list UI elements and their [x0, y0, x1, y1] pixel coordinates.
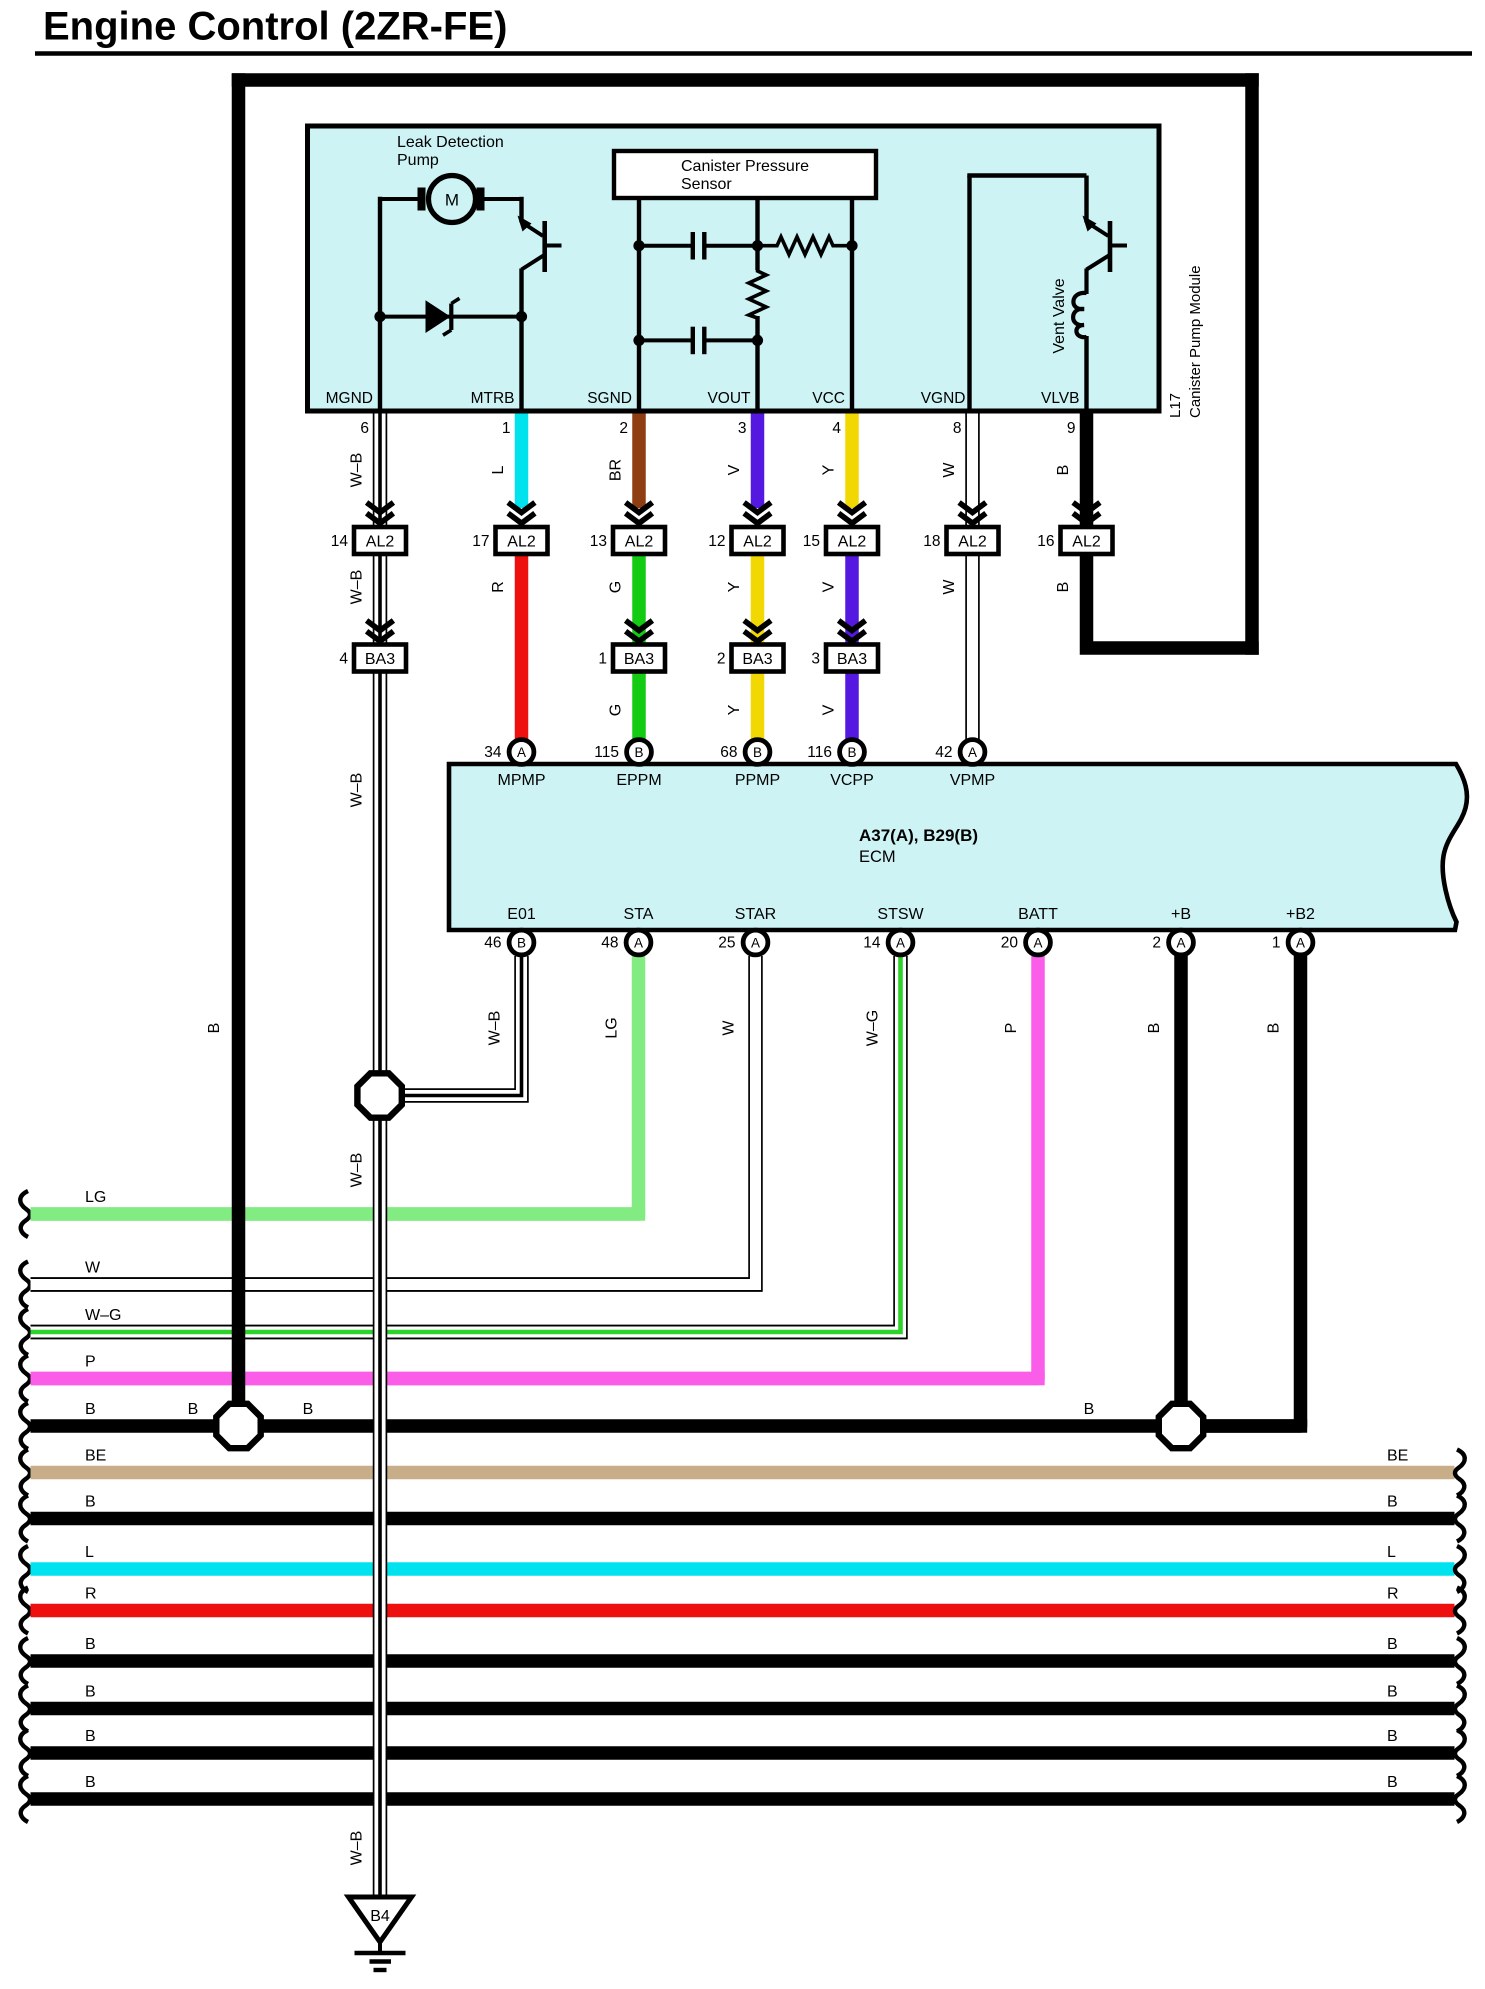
svg-text:B: B [188, 1401, 199, 1418]
svg-text:14: 14 [331, 533, 349, 550]
label ECM identification [859, 826, 978, 866]
wire motor to transistor Q1 [485, 197, 522, 223]
svg-text:B: B [303, 1401, 314, 1418]
wire BE horizontal row [20, 1448, 1465, 1496]
svg-text:W–B: W–B [487, 1011, 504, 1046]
svg-text:LG: LG [85, 1189, 106, 1206]
svg-text:AL2: AL2 [366, 533, 395, 550]
svg-text:B: B [847, 745, 856, 760]
svg-text:AL2: AL2 [625, 533, 654, 550]
svg-text:4: 4 [832, 420, 841, 437]
wire B ground bus horizontal row [20, 1401, 1307, 1449]
svg-text:V: V [821, 704, 838, 715]
connector BA3 pin 2 [717, 645, 784, 672]
wire B frame left vertical [206, 73, 239, 1426]
svg-text:R: R [490, 581, 507, 593]
svg-text:AL2: AL2 [958, 533, 987, 550]
svg-text:B4: B4 [370, 1908, 390, 1925]
wire MTRB inside module [519, 269, 523, 412]
transistor Q2 (vent valve driver) [1083, 216, 1128, 273]
svg-text:Canister Pressure: Canister Pressure [681, 158, 809, 175]
canister pressure sensor box [614, 151, 876, 198]
ECM pin 2 (A) bottom [1152, 930, 1193, 955]
wire W horizontal row [20, 1260, 762, 1308]
svg-text:PPMP: PPMP [735, 772, 780, 789]
svg-text:L: L [1387, 1544, 1396, 1561]
wire LG (starter signal) horizontal row [20, 1189, 645, 1237]
svg-text:3: 3 [738, 420, 747, 437]
svg-text:MTRB: MTRB [471, 390, 515, 407]
svg-text:BE: BE [85, 1448, 106, 1465]
svg-text:BA3: BA3 [837, 651, 867, 668]
wire B horizontal row [20, 1494, 1465, 1542]
svg-text:A: A [1296, 936, 1305, 951]
svg-text:BA3: BA3 [624, 651, 654, 668]
svg-text:G: G [608, 704, 625, 716]
svg-text:M: M [445, 191, 459, 210]
svg-text:Pump: Pump [397, 152, 439, 169]
connector AL2 pin 13 [590, 527, 665, 554]
junction node MGND/diode [374, 311, 385, 322]
ECM pin 116 (B) top [807, 740, 864, 765]
svg-text:L17: L17 [1167, 393, 1184, 418]
svg-text:Y: Y [726, 581, 743, 592]
svg-text:ECM: ECM [859, 848, 896, 866]
svg-text:W–B: W–B [349, 773, 366, 808]
connector BA3 pin 1 [598, 645, 665, 672]
wire B horizontal row [20, 1684, 1465, 1732]
svg-text:W–G: W–G [85, 1307, 121, 1324]
svg-text:B: B [1387, 1684, 1398, 1701]
wire W-G from ECM pin STSW [31, 956, 907, 1338]
connector BA3 pin 4 [339, 645, 406, 672]
svg-text:W: W [85, 1260, 101, 1277]
svg-text:A: A [1033, 936, 1042, 951]
svg-text:Leak Detection: Leak Detection [397, 134, 504, 151]
svg-text:4: 4 [339, 651, 348, 668]
svg-text:25: 25 [718, 935, 735, 952]
svg-text:18: 18 [923, 533, 940, 550]
svg-text:BR: BR [608, 459, 625, 481]
connector AL2 pin 15 [803, 527, 878, 554]
wire W from VGND to ECM pin VPMP [941, 413, 979, 740]
wire B from ECM pin +B to junction [1146, 955, 1181, 1426]
svg-text:VCC: VCC [812, 390, 845, 407]
svg-text:STAR: STAR [735, 906, 776, 923]
capacitor C2 (SGND-VOUT lower) [639, 327, 758, 355]
svg-text:B: B [1387, 1774, 1398, 1791]
zener diode D1 across motor [380, 298, 522, 335]
ECM pin 48 (A) bottom [601, 930, 651, 955]
svg-text:Canister Pump Module: Canister Pump Module [1187, 265, 1204, 418]
svg-text:Y: Y [821, 464, 838, 475]
ECM pin 14 (A) bottom [863, 930, 913, 955]
wire VOUT inside module [755, 198, 759, 411]
connector AL2 pin 18 [923, 527, 998, 554]
svg-text:VOUT: VOUT [707, 390, 751, 407]
connector BA3 pin 3 [811, 645, 878, 672]
wire B horizontal row [20, 1774, 1465, 1822]
wire VGND inside module [967, 176, 1086, 412]
svg-text:B: B [1266, 1023, 1283, 1034]
svg-text:W–B: W–B [349, 453, 366, 488]
svg-text:116: 116 [807, 744, 832, 761]
svg-text:EPPM: EPPM [616, 772, 661, 789]
wire B main frame top [232, 73, 1259, 87]
ECM pin 20 (A) bottom [1001, 930, 1051, 955]
svg-text:115: 115 [594, 744, 619, 761]
connector AL2 pin 16 [1037, 527, 1112, 554]
connector AL2 pin 12 [708, 527, 783, 554]
ECM pin 34 (A) top [484, 740, 534, 765]
wire B from ECM pin +B2 to junction [1181, 955, 1301, 1426]
svg-text:A: A [968, 745, 977, 760]
wire W from ECM pin STAR [31, 956, 762, 1291]
svg-text:AL2: AL2 [507, 533, 536, 550]
label L17 Canister Pump Module [1167, 265, 1204, 418]
wire L from MTRB pin 1 [490, 413, 522, 508]
svg-text:A: A [751, 936, 760, 951]
svg-text:A: A [634, 936, 643, 951]
vent valve coil [1073, 269, 1086, 412]
svg-text:B: B [85, 1494, 96, 1511]
svg-text:B: B [1387, 1636, 1398, 1653]
wire SGND inside module [637, 198, 641, 411]
svg-text:A37(A), B29(B): A37(A), B29(B) [859, 826, 978, 845]
wire R AL2-17 to ECM pin MPMP [490, 554, 522, 740]
svg-text:12: 12 [708, 533, 725, 550]
svg-text:W: W [721, 1020, 738, 1036]
svg-text:Vent Valve: Vent Valve [1051, 278, 1068, 353]
svg-text:+B2: +B2 [1286, 906, 1315, 923]
transistor Q1 (pump driver) [518, 216, 562, 273]
wire B frame right vertical [1245, 73, 1259, 655]
svg-text:STA: STA [624, 906, 654, 923]
ECM pin 1 (A) bottom [1272, 930, 1313, 955]
svg-text:B: B [1084, 1401, 1095, 1418]
capacitor C1 (SGND-VOUT upper) [639, 232, 758, 260]
resistor R1 (VOUT-VCC) [758, 237, 853, 255]
wire B from VLVB pin 9 label [1055, 465, 1072, 593]
ECM bottom pin labels [507, 906, 1315, 923]
wire MGND branch inside module [380, 197, 418, 411]
wire B horizontal row [20, 1636, 1465, 1684]
svg-text:B: B [1055, 465, 1072, 476]
svg-text:Sensor: Sensor [681, 176, 732, 193]
svg-text:B: B [206, 1023, 223, 1034]
svg-text:VCPP: VCPP [830, 772, 874, 789]
svg-text:B: B [1146, 1023, 1163, 1034]
svg-text:B: B [753, 745, 762, 760]
svg-text:34: 34 [484, 744, 502, 761]
svg-text:G: G [608, 581, 625, 593]
svg-text:13: 13 [590, 533, 607, 550]
ECM top pin labels [498, 772, 996, 789]
svg-text:1: 1 [502, 420, 511, 437]
svg-text:B: B [85, 1774, 96, 1791]
connector arrows into BA3 [367, 621, 866, 642]
svg-text:B: B [1387, 1728, 1398, 1745]
svg-text:B: B [1387, 1494, 1398, 1511]
wire R horizontal row [20, 1586, 1465, 1634]
svg-text:A: A [517, 745, 526, 760]
svg-text:17: 17 [472, 533, 489, 550]
node labels on B bus [188, 1401, 1095, 1418]
wire BR from SGND pin 2 [608, 413, 640, 508]
svg-text:L: L [490, 465, 507, 474]
svg-text:2: 2 [619, 420, 628, 437]
junction octagon B (B splice left) [216, 1404, 260, 1448]
wire LG from ECM pin STA [31, 955, 639, 1214]
svg-text:VGND: VGND [921, 390, 966, 407]
svg-text:2: 2 [717, 651, 726, 668]
svg-text:VPMP: VPMP [950, 772, 995, 789]
title Engine Control (2ZR-FE) [35, 5, 1472, 54]
svg-text:E01: E01 [507, 906, 536, 923]
svg-text:9: 9 [1067, 420, 1076, 437]
wire P from ECM pin BATT [31, 955, 1039, 1379]
svg-text:SGND: SGND [587, 390, 632, 407]
svg-text:L: L [85, 1544, 94, 1561]
svg-text:B: B [85, 1401, 96, 1418]
svg-text:R: R [85, 1586, 97, 1603]
svg-text:AL2: AL2 [838, 533, 867, 550]
svg-text:MGND: MGND [326, 390, 373, 407]
wire W-B main (MGND / E01 to ground B4) [349, 413, 387, 1897]
svg-text:B: B [1055, 582, 1072, 593]
svg-text:P: P [1003, 1023, 1020, 1034]
svg-text:BE: BE [1387, 1448, 1408, 1465]
wire B from VLVB to frame [1087, 413, 1259, 648]
svg-text:A: A [1176, 936, 1185, 951]
junction node MTRB/diode [516, 311, 527, 322]
resistor R2 (vertical on VOUT) [749, 268, 766, 318]
svg-text:BA3: BA3 [365, 651, 395, 668]
svg-text:R: R [1387, 1586, 1399, 1603]
svg-text:W–G: W–G [865, 1010, 882, 1046]
svg-text:BA3: BA3 [742, 651, 772, 668]
connector arrows into AL2 [367, 503, 1100, 524]
svg-text:LG: LG [604, 1017, 621, 1038]
wire W-B from ECM pin E01 to junction [392, 956, 528, 1102]
wire L horizontal row [20, 1544, 1465, 1592]
wire Y from VCC pin 4 [821, 413, 853, 508]
svg-text:15: 15 [803, 533, 820, 550]
wire G AL2-13 to ECM pin EPPM [608, 554, 640, 740]
connector AL2 pin 17 [472, 527, 547, 554]
svg-text:3: 3 [811, 651, 820, 668]
svg-text:BATT: BATT [1018, 906, 1058, 923]
svg-text:AL2: AL2 [1072, 533, 1101, 550]
svg-text:68: 68 [720, 744, 737, 761]
svg-text:W: W [941, 462, 958, 478]
wire B horizontal row [20, 1728, 1465, 1776]
svg-text:STSW: STSW [877, 906, 924, 923]
ECM pin 46 (B) bottom [484, 930, 534, 955]
svg-text:B: B [634, 745, 643, 760]
svg-text:20: 20 [1001, 935, 1019, 952]
ECM pin 68 (B) top [720, 740, 770, 765]
svg-text:W–B: W–B [349, 570, 366, 605]
junction octagon A (W-B splice) [357, 1073, 401, 1117]
ground B4 [349, 1897, 412, 1970]
svg-text:A: A [896, 936, 905, 951]
svg-text:2: 2 [1152, 935, 1161, 952]
label Leak Detection Pump [397, 134, 504, 169]
svg-text:V: V [821, 581, 838, 592]
wire P horizontal row [20, 1354, 1044, 1402]
junction nodes of sensor network [633, 240, 857, 346]
svg-text:Y: Y [726, 704, 743, 715]
ECM pin 42 (A) top [935, 740, 985, 765]
svg-text:B: B [517, 936, 526, 951]
svg-text:1: 1 [1272, 935, 1281, 952]
svg-text:B: B [85, 1728, 96, 1745]
svg-text:Engine Control (2ZR-FE): Engine Control (2ZR-FE) [43, 5, 507, 49]
svg-text:42: 42 [935, 744, 952, 761]
junction octagon C (B splice right) [1159, 1404, 1203, 1448]
svg-text:W–B: W–B [349, 1153, 366, 1188]
svg-text:W: W [941, 579, 958, 595]
module pin name labels [326, 390, 1080, 407]
svg-text:P: P [85, 1354, 96, 1371]
connector AL2 pin 14 [331, 527, 406, 554]
ECM A37(A) B29(B) box [449, 764, 1467, 930]
wire V from VOUT pin 3 [726, 413, 758, 508]
svg-text:B: B [85, 1636, 96, 1653]
canister pump module L17 box [308, 126, 1160, 411]
motor M of leak detection pump [418, 176, 485, 223]
svg-text:8: 8 [953, 420, 962, 437]
svg-text:14: 14 [863, 935, 881, 952]
wire V AL2-15 to ECM pin VCPP [821, 554, 853, 740]
svg-text:16: 16 [1037, 533, 1054, 550]
svg-text:46: 46 [484, 935, 501, 952]
svg-text:VLVB: VLVB [1041, 390, 1080, 407]
wire W-G horizontal row [20, 1307, 907, 1355]
svg-text:MPMP: MPMP [498, 772, 546, 789]
wire VCC inside module [850, 198, 854, 411]
wire Y AL2-12 to ECM pin PPMP [726, 554, 758, 740]
svg-text:W–B: W–B [349, 1831, 366, 1866]
ECM pin 115 (B) top [594, 740, 651, 765]
svg-text:48: 48 [601, 935, 618, 952]
ECM pin 25 (A) bottom [718, 930, 768, 955]
svg-text:AL2: AL2 [743, 533, 772, 550]
svg-text:+B: +B [1171, 906, 1191, 923]
svg-text:B: B [85, 1684, 96, 1701]
svg-text:6: 6 [360, 420, 369, 437]
svg-text:V: V [726, 464, 743, 475]
pin numbers of L17 connector [360, 420, 1075, 437]
svg-text:1: 1 [598, 651, 607, 668]
